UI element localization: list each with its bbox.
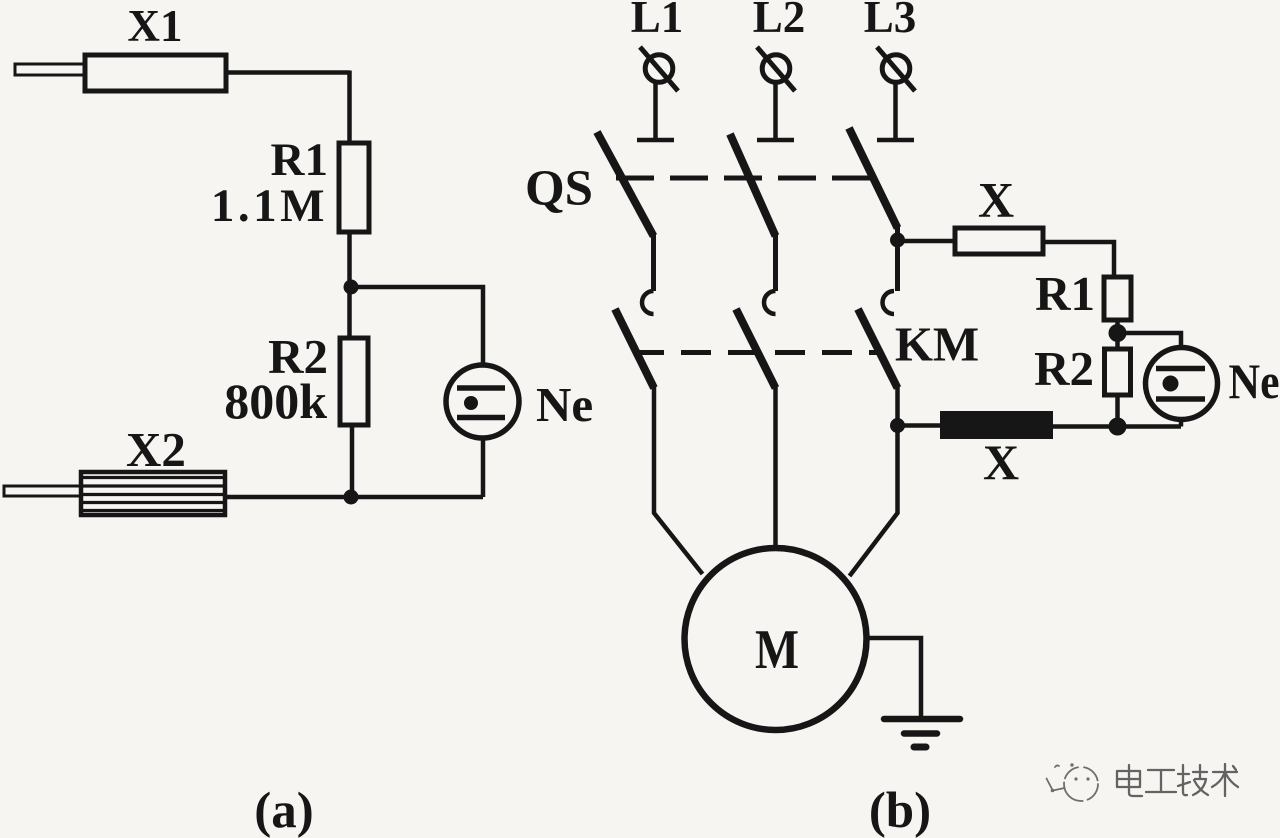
contactor KM link (dashed) xyxy=(634,350,880,355)
svg-text:KM: KM xyxy=(895,317,979,372)
svg-text:L2: L2 xyxy=(753,0,806,42)
svg-text:800k: 800k xyxy=(224,373,327,429)
wire xyxy=(898,423,941,428)
contactor KM pole 3 blade xyxy=(858,309,898,388)
svg-text:L1: L1 xyxy=(631,0,684,42)
wire xyxy=(347,232,352,338)
svg-text:(a): (a) xyxy=(254,783,313,838)
watermark text 电工技术 xyxy=(1117,764,1238,796)
switch QS pole 3 blade xyxy=(849,128,898,228)
wire xyxy=(1115,320,1120,349)
contact hook pole 3 xyxy=(883,291,895,314)
svg-text:X2: X2 xyxy=(126,422,186,477)
svg-text:R1: R1 xyxy=(1035,266,1095,321)
resistor R2 (b) xyxy=(1105,349,1131,395)
术 xyxy=(1212,764,1238,796)
terminal L1 xyxy=(637,47,678,140)
terminal L2 xyxy=(757,47,795,140)
wire xyxy=(773,234,778,291)
wire xyxy=(1043,242,1114,277)
node xyxy=(344,490,359,505)
resistor X (probe tip) xyxy=(955,228,1043,254)
svg-text:QS: QS xyxy=(525,161,593,217)
svg-text:(b): (b) xyxy=(869,783,931,838)
node xyxy=(890,418,905,433)
svg-text:M: M xyxy=(755,619,799,681)
svg-text:X1: X1 xyxy=(128,1,183,51)
svg-text:R1: R1 xyxy=(271,134,328,186)
terminal L3 xyxy=(877,47,915,140)
wire xyxy=(1053,419,1181,427)
svg-text:Ne: Ne xyxy=(1229,353,1280,409)
svg-text:1.1M: 1.1M xyxy=(211,180,328,232)
wire xyxy=(1115,395,1120,427)
wire xyxy=(226,70,350,75)
contactor KM pole 2 blade xyxy=(736,309,776,388)
svg-text:X: X xyxy=(978,172,1014,228)
probe X1 xyxy=(15,55,226,91)
contact hook pole 1 xyxy=(642,291,654,314)
svg-text:L3: L3 xyxy=(864,0,917,42)
resistor R1 (b) xyxy=(1104,277,1131,320)
wire xyxy=(895,226,900,291)
wire xyxy=(347,71,352,144)
switch QS pole 2 blade xyxy=(730,134,776,236)
wire xyxy=(773,386,778,546)
技 xyxy=(1178,765,1190,795)
neon lamp Ne (a) xyxy=(446,365,519,438)
contactor KM pole 1 blade xyxy=(615,309,654,388)
工 xyxy=(1146,770,1176,792)
motor M xyxy=(685,548,867,730)
node xyxy=(1109,324,1127,342)
resistor R2 xyxy=(340,338,368,425)
node xyxy=(344,280,359,295)
node xyxy=(890,233,905,248)
svg-text:Ne: Ne xyxy=(536,377,593,432)
wire xyxy=(350,425,355,497)
resistor R1 xyxy=(339,143,369,232)
neon lamp Ne (b) xyxy=(1146,348,1218,420)
resistor X (shorted, black) xyxy=(940,411,1053,439)
wire xyxy=(898,239,956,244)
wire xyxy=(850,386,898,576)
svg-text:R2: R2 xyxy=(1034,341,1094,396)
switch QS link (dashed) xyxy=(616,176,876,181)
wire xyxy=(654,386,703,574)
contact hook pole 2 xyxy=(764,291,776,314)
wire to ground xyxy=(866,638,921,716)
wire xyxy=(651,234,656,291)
ground xyxy=(884,719,960,747)
电 xyxy=(1129,765,1142,796)
watermark logo xyxy=(1047,763,1099,801)
probe X2 xyxy=(4,472,225,515)
wire xyxy=(1118,333,1182,348)
wire xyxy=(351,287,483,366)
wire xyxy=(225,495,483,500)
svg-text:X: X xyxy=(983,434,1019,490)
node xyxy=(1109,418,1127,436)
switch QS pole 1 blade xyxy=(597,132,654,236)
wire xyxy=(481,438,486,497)
